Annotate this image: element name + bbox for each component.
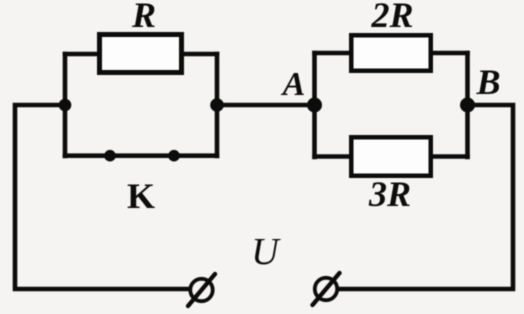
svg-text:B: B — [475, 62, 500, 102]
svg-text:A: A — [281, 66, 306, 103]
svg-text:K: K — [127, 176, 155, 216]
svg-text:3R: 3R — [368, 174, 411, 214]
svg-text:R: R — [131, 0, 156, 35]
svg-text:U: U — [251, 231, 281, 273]
svg-text:2R: 2R — [370, 0, 413, 35]
